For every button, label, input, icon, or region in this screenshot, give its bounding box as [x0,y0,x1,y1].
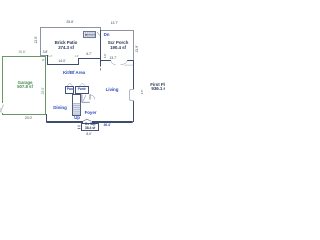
patio stairs treads [0,0,165,165]
brick patio jog bottom [40,54,49,57]
porch label: 190.4 sf [105,45,131,50]
porch bottom wall left segment [100,59,111,62]
dim 2.5' [140,87,144,97]
label Dining [48,106,72,111]
green dim 25.0' [42,85,46,97]
label Living [100,88,124,93]
kitchen nook riser [78,58,79,65]
dim 3.8' patio jog [39,50,51,54]
garage door gap on left wall [1,103,3,113]
porch label: Scr Porch [105,40,131,45]
screen porch right wall [132,30,135,60]
east door bump (rounded) [129,89,134,101]
label Cv Stp [82,123,99,127]
house south wall (thick) [46,121,133,123]
patio label: Brick Patio [53,40,79,45]
dim 13.7' porch top [104,21,124,25]
porch bottom wall right segment [127,59,133,62]
foyer door swing [0,0,165,165]
dim 3.9' porch lower-left [103,52,107,60]
label Pan [65,87,74,92]
label Kit/Bf Area [60,71,88,76]
dashed cased opening kitchen/living [0,0,165,165]
brick patio outline top [40,26,101,29]
garage door swing marks [0,0,165,165]
dim 12.9' patio left [34,34,38,46]
closet below powder [81,94,83,102]
label Pwdr [75,87,88,92]
patio label: 374.3 sf [53,45,79,50]
dim 8' tiny [42,59,44,63]
interior stairs box [72,94,81,115]
dim 13.7' porch bottom [103,56,123,60]
house north wall west segment [47,64,79,65]
kitchen nook top wall [78,58,101,59]
covered stoop box [81,123,99,132]
porch double door swing [0,0,165,165]
green dim 1.0' left [48,55,52,59]
interior stairs treads + fill [73,103,80,115]
label 507.8 sf [12,85,38,89]
label Garage [12,81,38,85]
pantry box [65,86,74,94]
dim 8.0' [80,132,98,136]
dim 14.0' [52,59,72,63]
dim 6.7' [82,52,96,56]
green dim 20.6' [12,51,32,55]
label First Floor [150,82,171,87]
south wall door gap [83,121,92,123]
east wall door bump gap [132,89,134,100]
dim 36.4' [97,123,117,128]
brick patio outline left [39,27,42,56]
small tick mark below south wall [0,0,165,165]
pantry door swing peak [0,0,165,165]
house east wall [133,60,134,123]
label Dn [104,33,110,38]
dim 20.0' below garage [19,116,38,120]
dim 25.8' top of patio [60,20,80,24]
green dim 1.0' right [75,55,79,59]
label Foyer [79,111,102,116]
screen porch top wall [100,29,134,32]
garage outline [2,56,46,115]
dim 13.9' porch right [135,43,139,55]
patio stairs (Dn) box [83,31,96,38]
label 936.1 sf [151,86,167,91]
house west wall lower [46,114,47,122]
label 38.4 sf [82,127,99,131]
label Up [71,116,83,121]
powder box [75,86,89,94]
patio stairs center arrow [85,34,96,36]
brick patio step right [99,27,102,31]
door swing to stairs [97,32,100,36]
patio jog right / house west top [47,55,48,65]
screen porch left wall [99,30,102,66]
